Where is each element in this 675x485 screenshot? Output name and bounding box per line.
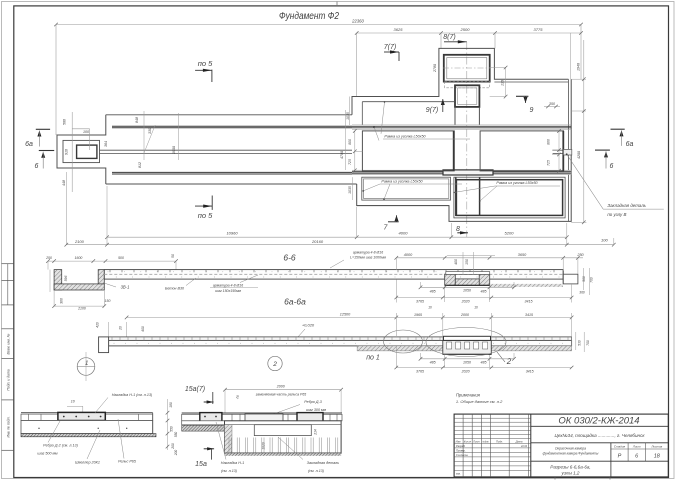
channel band crossing complex (top)	[352, 124, 571, 126]
svg-text:Окрасочная камера: Окрасочная камера	[555, 447, 586, 451]
svg-text:3415: 3415	[526, 369, 534, 373]
middle-left room right wall thick	[453, 131, 455, 171]
svg-text:Стадия: Стадия	[614, 444, 626, 448]
svg-text:22360: 22360	[351, 19, 364, 24]
detail leader 2	[497, 352, 505, 362]
6a-6a center tub	[443, 340, 492, 354]
svg-text:800: 800	[348, 139, 352, 145]
svg-text:18: 18	[654, 454, 661, 460]
svg-text:2: 2	[506, 357, 512, 366]
svg-text:1050: 1050	[463, 289, 471, 293]
svg-text:арматура 4-8 Ø16: арматура 4-8 Ø16	[213, 284, 243, 288]
6-6 left pit walls	[54, 270, 62, 290]
svg-text:15а(7): 15а(7)	[185, 386, 205, 393]
svg-text:530: 530	[577, 340, 581, 346]
svg-text:Взам. инв. №: Взам. инв. №	[7, 333, 11, 354]
svg-text:по 5: по 5	[198, 59, 213, 68]
svg-text:150: 150	[105, 299, 111, 303]
svg-text:150: 150	[465, 259, 469, 265]
6a-6a tub plates	[444, 336, 491, 340]
top dimension row 3625 / 2500 / 3775	[357, 32, 581, 34]
svg-text:Закладная деталь: Закладная деталь	[307, 461, 339, 465]
svg-text:485: 485	[430, 361, 436, 365]
detail1 band dividers	[27, 414, 29, 420]
svg-text:448: 448	[62, 180, 66, 186]
svg-text:3775: 3775	[534, 27, 544, 32]
centerline of pit column	[466, 42, 468, 237]
title block object cell	[531, 442, 669, 444]
svg-text:800: 800	[547, 139, 551, 145]
svg-text:9(7): 9(7)	[426, 107, 438, 114]
svg-text:812: 812	[138, 162, 142, 168]
svg-text:10: 10	[71, 400, 75, 404]
lower-right room	[454, 177, 565, 218]
big box centerlines	[443, 67, 491, 69]
svg-text:200: 200	[171, 443, 175, 450]
format tick top centre	[336, 2, 338, 6]
svg-text:заменяемая часть рельса Р65: заменяемая часть рельса Р65	[255, 393, 307, 397]
6a-6a rail shpala ticks	[111, 337, 113, 341]
6-6 right under-hatch	[490, 284, 563, 287]
svg-text:Кол.уч: Кол.уч	[464, 441, 472, 444]
svg-text:8: 8	[456, 226, 460, 233]
shared dim column 180/550/200	[167, 399, 169, 450]
column walls below small box	[454, 107, 456, 125]
detail ellipse 1	[384, 330, 423, 353]
title block outer	[454, 414, 668, 477]
detail2 plates	[200, 413, 222, 422]
detail ellipse 2	[426, 328, 506, 357]
plan: channel bottom wall lines	[112, 171, 352, 173]
svg-text:3В-1: 3В-1	[121, 285, 130, 290]
detail2 mark 15a	[204, 448, 214, 450]
svg-text:Согласов.: Согласов.	[456, 453, 469, 457]
6-6 right end step	[563, 274, 578, 284]
svg-text:4000: 4000	[399, 231, 409, 236]
svg-text:130: 130	[500, 80, 504, 86]
svg-text:Примечания: Примечания	[456, 392, 481, 397]
svg-text:100: 100	[601, 238, 608, 243]
svg-text:300: 300	[60, 298, 64, 304]
svg-text:Провер.: Провер.	[456, 448, 466, 452]
detail1 hatch band	[21, 434, 156, 437]
svg-text:1940: 1940	[577, 63, 581, 71]
6a-6a top dim 12500 + row	[127, 316, 572, 318]
detail2 window	[254, 425, 311, 436]
svg-text:Накладка Н-1: Накладка Н-1	[221, 461, 244, 465]
svg-text:2: 2	[272, 361, 277, 368]
6a-6a strip rail band	[109, 337, 572, 341]
svg-text:зав.: зав.	[455, 473, 461, 476]
leader to embed note	[567, 155, 664, 210]
detail2 ribs	[228, 438, 230, 453]
node circle 2	[268, 356, 282, 370]
detail1 nakladka plate	[58, 412, 105, 420]
section mark 9	[516, 95, 528, 97]
svg-text:Бетон В30: Бетон В30	[165, 287, 185, 291]
section mark 6 left	[39, 150, 54, 152]
plan left dimension column	[71, 112, 73, 192]
6-6 right end dims 500/700/360	[582, 268, 584, 290]
svg-text:2000: 2000	[276, 384, 285, 388]
svg-text:20160: 20160	[311, 239, 324, 244]
section mark 7 bottom	[388, 221, 399, 223]
svg-text:550: 550	[174, 432, 178, 438]
6-6 tub top dims 400/150	[462, 252, 464, 274]
small box	[455, 85, 479, 107]
svg-text:3765: 3765	[416, 369, 424, 373]
svg-text:2500: 2500	[460, 27, 471, 32]
svg-text:Цех№34, площадка .............: Цех№34, площадка ............., г. Челяб…	[554, 433, 645, 438]
svg-text:6-6: 6-6	[283, 253, 296, 263]
svg-text:250: 250	[576, 253, 584, 257]
svg-text:10960: 10960	[226, 231, 238, 236]
svg-text:420: 420	[96, 322, 100, 328]
svg-text:(см. л.13): (см. л.13)	[308, 469, 325, 473]
svg-text:5200: 5200	[505, 231, 515, 236]
svg-text:Фундамент Ф2: Фундамент Ф2	[279, 10, 339, 22]
middle-right room right wall thick	[562, 131, 564, 171]
svg-text:Р: Р	[618, 454, 622, 460]
title block stage cells	[610, 443, 612, 477]
svg-text:Швеллер 20К1: Швеллер 20К1	[75, 461, 100, 465]
svg-text:12500: 12500	[340, 313, 351, 317]
svg-text:Изм: Изм	[456, 440, 461, 444]
detail2 bottom hatch	[225, 452, 342, 454]
svg-text:Подп. и дата: Подп. и дата	[7, 369, 11, 390]
column walls through lower band	[455, 177, 457, 216]
svg-text:485: 485	[481, 361, 487, 365]
svg-text:8(7): 8(7)	[443, 34, 455, 41]
middle-right room	[480, 131, 563, 171]
svg-text:3765: 3765	[416, 299, 424, 303]
svg-text:Рельс Р65: Рельс Р65	[118, 460, 137, 464]
channel band crossing complex (bottom)	[352, 171, 571, 175]
svg-text:Разраб.: Разраб.	[456, 444, 466, 448]
detail2 dim 2000	[225, 389, 341, 391]
svg-text:1: 1	[85, 361, 88, 367]
svg-text:шаг 150х150мм: шаг 150х150мм	[215, 289, 241, 293]
svg-text:Подп.: Подп.	[496, 440, 503, 444]
svg-text:6: 6	[610, 163, 614, 170]
svg-text:1020: 1020	[262, 442, 266, 450]
plan: left head extension outline	[57, 115, 106, 184]
svg-text:№док: №док	[482, 441, 489, 444]
svg-text:Лист: Лист	[472, 440, 481, 444]
svg-text:Разрезы 6-6,6а-6а,: Разрезы 6-6,6а-6а,	[550, 465, 590, 470]
title block left grid verticals	[462, 414, 464, 477]
svg-text:2020: 2020	[461, 369, 470, 373]
node circle 1	[77, 358, 95, 376]
plan: channel top wall lines	[112, 125, 352, 127]
svg-text:22.04: 22.04	[520, 445, 528, 448]
svg-text:2780: 2780	[433, 64, 437, 73]
svg-text:700: 700	[586, 340, 590, 346]
svg-text:916: 916	[65, 149, 69, 155]
svg-text:10: 10	[474, 306, 478, 310]
6-6 slab dots	[107, 270, 110, 273]
6-6 tub top plate	[446, 272, 490, 275]
left column stamp cells	[2, 263, 14, 265]
6a-6a left end block	[99, 337, 109, 353]
detail1 right edge	[152, 413, 154, 434]
plan: rail lines from head box	[100, 149, 353, 151]
detail2 deep block	[225, 421, 342, 453]
detail1 beam band	[21, 421, 153, 434]
big top box	[444, 55, 490, 82]
right vertical dim line 1940 / 4200	[583, 40, 585, 222]
svg-text:15а: 15а	[195, 461, 207, 468]
svg-text:по 5: по 5	[198, 211, 213, 220]
detail2 shallow left band	[182, 421, 225, 425]
svg-text:Закладная деталь: Закладная деталь	[607, 203, 646, 208]
svg-text:Инв. № подл.: Инв. № подл.	[7, 416, 11, 437]
title block code cell	[531, 425, 669, 427]
detail2 rail band	[182, 412, 342, 414]
svg-text:фундаментная камера Фундаменты: фундаментная камера Фундаменты	[543, 452, 599, 456]
lower-left room	[362, 177, 451, 200]
svg-text:1050: 1050	[463, 361, 471, 365]
svg-text:2000: 2000	[460, 313, 469, 317]
svg-text:шаг 300 мм: шаг 300 мм	[306, 408, 327, 412]
svg-text:180: 180	[169, 402, 173, 408]
svg-text:1035: 1035	[348, 186, 352, 194]
svg-text:6а-6а: 6а-6а	[284, 297, 306, 307]
svg-text:3625: 3625	[394, 27, 404, 32]
svg-text:500: 500	[118, 256, 124, 260]
svg-text:4700: 4700	[340, 151, 344, 159]
plan: head inner box	[77, 145, 97, 158]
embed plate tab right wall	[563, 149, 571, 155]
svg-text:1900: 1900	[172, 146, 176, 154]
svg-text:364: 364	[104, 141, 108, 147]
svg-text:725: 725	[348, 159, 352, 165]
svg-text:4000: 4000	[404, 253, 413, 257]
svg-text:700: 700	[589, 277, 593, 283]
svg-text:20: 20	[119, 326, 123, 331]
svg-text:485: 485	[430, 289, 436, 293]
svg-text:330: 330	[148, 128, 152, 134]
svg-text:Дата: Дата	[515, 440, 523, 444]
6a-6a strip slab band	[109, 340, 572, 346]
svg-text:арматура 4-8 Ø16: арматура 4-8 Ø16	[353, 251, 383, 255]
bottom dim row2 2100/20160/100	[66, 244, 614, 246]
section mark 6 right	[595, 149, 610, 151]
upper-left room inner edges	[362, 101, 455, 103]
svg-text:по 1: по 1	[366, 355, 380, 362]
pit complex outer boundary	[352, 48, 568, 114]
svg-text:Рамка из уголка L50х50: Рамка из уголка L50х50	[381, 180, 423, 184]
6a-6a right end dims 530/700	[575, 332, 577, 350]
6-6 slab rebar ticks	[109, 270, 111, 273]
middle-left room	[362, 131, 454, 171]
svg-text:1. Общие данные см. л.2: 1. Общие данные см. л.2	[456, 399, 503, 404]
svg-text:узлы 1,2: узлы 1,2	[561, 471, 580, 476]
plan: channel top outer edge	[106, 114, 352, 116]
hidden outline under big box	[445, 82, 490, 88]
plan: channel bottom outer edge	[106, 183, 357, 185]
svg-text:Рамка из уголка L50х50: Рамка из уголка L50х50	[384, 135, 426, 139]
svg-text:2100: 2100	[77, 307, 86, 311]
6-6 top dims 250/1600/500/50	[48, 260, 176, 262]
dim 350	[544, 106, 560, 108]
svg-text:200: 200	[174, 450, 178, 457]
svg-text:485: 485	[481, 289, 487, 293]
svg-text:506: 506	[63, 119, 67, 125]
svg-text:ОК 030/2-КЖ-2014: ОК 030/2-КЖ-2014	[558, 416, 639, 427]
svg-text:Листов: Листов	[650, 444, 662, 448]
right room dim col 800/725	[558, 131, 560, 171]
6-6 slab	[104, 270, 563, 280]
svg-text:по узлу В: по узлу В	[607, 212, 626, 217]
svg-text:6: 6	[34, 163, 38, 170]
bottom dim row1 10960/4000/5200	[107, 236, 567, 238]
plan: head box	[63, 140, 100, 162]
svg-text:1965: 1965	[414, 313, 422, 317]
6a-6a bottom dims 485/1050/485	[421, 358, 515, 360]
svg-text:596: 596	[64, 276, 68, 282]
svg-text:7(7): 7(7)	[384, 44, 396, 51]
svg-text:(см. л.13): (см. л.13)	[221, 469, 238, 473]
svg-text:214: 214	[314, 429, 318, 436]
format tick bottom centre	[554, 478, 556, 480]
section mark 6a right	[611, 128, 625, 130]
svg-text:500: 500	[582, 276, 586, 282]
svg-text:400: 400	[141, 326, 145, 332]
svg-text:725: 725	[547, 160, 551, 166]
plan inner dims 848 330 1900 812	[143, 111, 145, 160]
svg-text:3415: 3415	[525, 299, 533, 303]
svg-text:Ребро Д-2 (см. л.13): Ребро Д-2 (см. л.13)	[43, 444, 78, 448]
detail1 rail top band	[21, 412, 153, 414]
svg-text:9: 9	[530, 107, 534, 114]
reinforced band segment at column	[443, 170, 493, 175]
svg-text:100: 100	[83, 130, 89, 134]
svg-text:шаг 500 мм: шаг 500 мм	[37, 452, 58, 456]
svg-text:3415: 3415	[525, 313, 533, 317]
svg-text:2100: 2100	[74, 239, 85, 244]
svg-text:2020: 2020	[461, 299, 470, 303]
svg-text:10: 10	[428, 306, 432, 310]
svg-text:350: 350	[549, 102, 555, 106]
6-6 tub recess	[445, 274, 456, 285]
svg-text:+0,020: +0,020	[302, 322, 315, 327]
top overall dimension 22360	[56, 24, 581, 26]
svg-text:Лист: Лист	[632, 444, 641, 448]
svg-text:3650: 3650	[518, 253, 527, 257]
svg-text:400: 400	[454, 259, 458, 265]
svg-text:4200: 4200	[577, 151, 581, 159]
lower-left room bottom outer	[357, 205, 449, 207]
6a-6a under hatch right part	[357, 346, 571, 351]
svg-text:Ребро Д-3: Ребро Д-3	[304, 400, 322, 404]
svg-text:550: 550	[170, 426, 174, 432]
svg-text:6а: 6а	[25, 141, 33, 148]
svg-text:Рамка из уголка L50х50: Рамка из уголка L50х50	[496, 181, 538, 185]
svg-text:250: 250	[45, 256, 52, 260]
svg-text:L=150мм шаг 1000мм: L=150мм шаг 1000мм	[350, 256, 386, 260]
view mark по 5 (bottom)	[211, 196, 213, 210]
6-6 left pit dims	[49, 270, 51, 292]
title block doc name cell	[531, 460, 611, 462]
svg-text:360: 360	[579, 291, 585, 295]
svg-text:6а: 6а	[626, 141, 634, 148]
6-6 bottom dims 485/1050/485	[421, 286, 515, 288]
section mark 6a left	[36, 128, 50, 130]
svg-text:Накладка Н-1 (см. л.13): Накладка Н-1 (см. л.13)	[112, 393, 153, 397]
6a-6a bottom dims 3765/2020/3415	[396, 367, 571, 369]
svg-text:1600: 1600	[75, 256, 83, 260]
right wall double line	[567, 79, 569, 221]
svg-text:50: 50	[171, 254, 175, 258]
dim 130	[490, 67, 506, 69]
svg-text:848: 848	[135, 117, 139, 123]
title block left grid horizontals	[454, 417, 531, 419]
left room dim col 800/725	[354, 131, 356, 170]
6-6 bottom dims 3765/2020/3415	[396, 297, 571, 299]
